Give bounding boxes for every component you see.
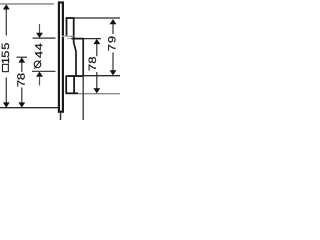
square symbol of □155 (2, 64, 8, 71)
dimension line □155 upper segment (5, 9, 7, 36)
dimension text "1" of 155 (left, rotated) (2, 58, 9, 64)
short reference line for left 78 (17, 56, 28, 58)
dimension text "8" of left 78 (rotated) (17, 73, 24, 79)
dimension line Ø44 upper tail (39, 24, 41, 34)
dimension text "7" of left 78 (rotated) (17, 81, 24, 87)
arrowhead □155 bottom (down) (3, 102, 10, 107)
wall plate (side view) (59, 3, 63, 112)
arrowhead □155 top (up) (3, 4, 10, 9)
dimension text "5" of 155 (left, rotated) (2, 51, 9, 57)
dimension line right 79 lower segment (112, 53, 114, 71)
line D: box bottom edge + gray extension (66, 92, 79, 94)
dimension text "4" of Ø44 (rotated) (35, 51, 42, 58)
dimension line right 78 upper segment (96, 44, 98, 57)
arrowhead Ø44 bottom (up, outside) (36, 72, 43, 77)
Ø44 lower extension line (32, 70, 56, 72)
line A: knob top edge extended right (66, 17, 120, 19)
box below handle (65, 76, 67, 94)
bottom extension line (0, 107, 58, 109)
dimension text "4" of Ø44 (rotated) (35, 43, 42, 50)
dimension line □155 lower segment (5, 78, 7, 103)
dimension text "9" of right 79 (rotated) (108, 36, 115, 42)
arrowhead right 78 bottom (down) (93, 88, 100, 93)
Ø44 upper extension line (33, 37, 56, 39)
dimension text "8" of right 78 (rotated) (89, 57, 96, 63)
top gray extension line (0, 3, 54, 5)
dimension text "7" of right 79 (rotated) (108, 45, 115, 51)
arrowhead right 79 top (up) (110, 19, 117, 24)
pipe below plate (60, 113, 62, 120)
arrowhead right 79 bottom (down) (110, 70, 117, 75)
dimension line right 78 lower segment (96, 72, 98, 90)
handle (lower knob) (82, 39, 84, 76)
arrowhead left 78 bottom (down) (18, 102, 25, 107)
arrowhead Ø44 top (down, outside) (36, 33, 43, 38)
dimension line right 79 upper segment (112, 23, 114, 34)
dimension text "5" of 155 (left, rotated) (2, 43, 9, 49)
line C: handle bottom edge extended right (83, 75, 120, 77)
dimension line left 78 lower segment (21, 88, 23, 103)
line B: handle top edge + extensions (67, 38, 72, 40)
dimension line left 78 upper segment (21, 62, 23, 72)
arrowhead right 78 top (up) (93, 39, 100, 44)
arrowhead left 78 top (up) (18, 57, 25, 62)
dimension line Ø44 lower tail (39, 77, 41, 86)
diameter symbol (34, 61, 41, 68)
dimension text "7" of right 78 (rotated) (89, 65, 96, 71)
upper knob (66, 18, 68, 37)
